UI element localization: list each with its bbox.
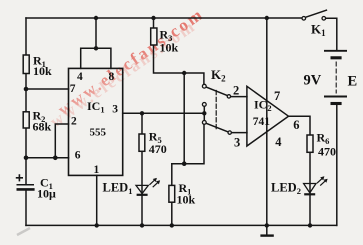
svg-text:10k: 10k	[177, 193, 196, 207]
svg-text:LED2: LED2	[271, 181, 301, 197]
svg-text:7: 7	[274, 89, 280, 103]
svg-text:2: 2	[71, 116, 77, 128]
svg-text:3: 3	[234, 135, 240, 149]
svg-text:LED1: LED1	[103, 181, 133, 197]
svg-text:741: 741	[253, 116, 270, 128]
svg-text:E: E	[348, 74, 358, 90]
svg-text:9V: 9V	[304, 73, 322, 89]
svg-text:7: 7	[70, 83, 76, 95]
svg-text:555: 555	[90, 127, 107, 139]
svg-text:68k: 68k	[33, 120, 52, 134]
svg-text:6: 6	[75, 150, 81, 162]
svg-text:3: 3	[112, 103, 118, 115]
svg-text:10μ: 10μ	[37, 187, 56, 201]
svg-text:6: 6	[293, 118, 299, 132]
svg-text:10k: 10k	[33, 64, 52, 78]
svg-text:2: 2	[233, 83, 239, 97]
svg-text:1: 1	[94, 164, 100, 176]
svg-text:470: 470	[149, 142, 167, 156]
svg-text:8: 8	[109, 71, 115, 83]
svg-text:4: 4	[275, 135, 282, 149]
svg-text:470: 470	[318, 145, 336, 159]
svg-text:4: 4	[77, 71, 83, 83]
svg-text:10k: 10k	[160, 41, 179, 55]
